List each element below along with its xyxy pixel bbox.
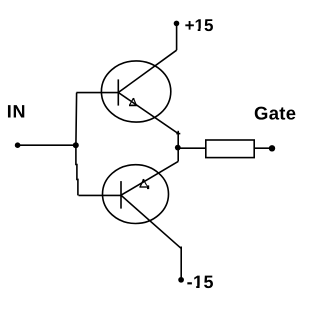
wire tick at Q1 emitter terminal: [176, 133, 180, 135]
node IN terminal dot: [15, 142, 21, 148]
wire Q2 emitter diagonal: [121, 161, 178, 195]
wire Q1 base: [76, 92, 118, 94]
wire input riser vertical: [76, 93, 78, 196]
node Gate terminal dot: [269, 145, 275, 151]
svg-text:Gate: Gate: [254, 102, 296, 123]
wire IN horizontal: [18, 144, 76, 146]
node input junction dot: [73, 142, 79, 148]
wire Q1 collector diagonal: [118, 50, 176, 92]
node +15 terminal dot: [174, 21, 180, 27]
resistor R1 body: [206, 140, 254, 158]
svg-text:IN: IN: [7, 101, 27, 121]
svg-text:+15: +15: [185, 16, 214, 35]
transistor Q1 emitter arrow: [129, 98, 137, 106]
label +15: [185, 16, 214, 35]
wire Q2 base: [79, 194, 122, 196]
label -15: [187, 272, 214, 292]
wire +15 vertical: [176, 23, 178, 50]
wire output vertical: [177, 131, 179, 162]
wire resistor to gate dot: [254, 147, 272, 149]
node -15 terminal dot: [178, 277, 184, 283]
transistor Q1 circle: [101, 61, 170, 122]
svg-text:-15: -15: [187, 272, 214, 292]
transistor Q1 base bar: [117, 79, 119, 105]
transistor Q2 circle: [103, 165, 169, 224]
wire -15 vertical: [180, 247, 182, 280]
wire output to resistor: [178, 147, 206, 149]
transistor Q2 emitter arrow: [139, 179, 149, 189]
transistor Q2 base bar: [120, 181, 122, 209]
node output junction dot: [175, 145, 181, 151]
wire Q2 collector diagonal: [121, 195, 181, 248]
wire Q1 emitter diagonal: [118, 93, 177, 134]
